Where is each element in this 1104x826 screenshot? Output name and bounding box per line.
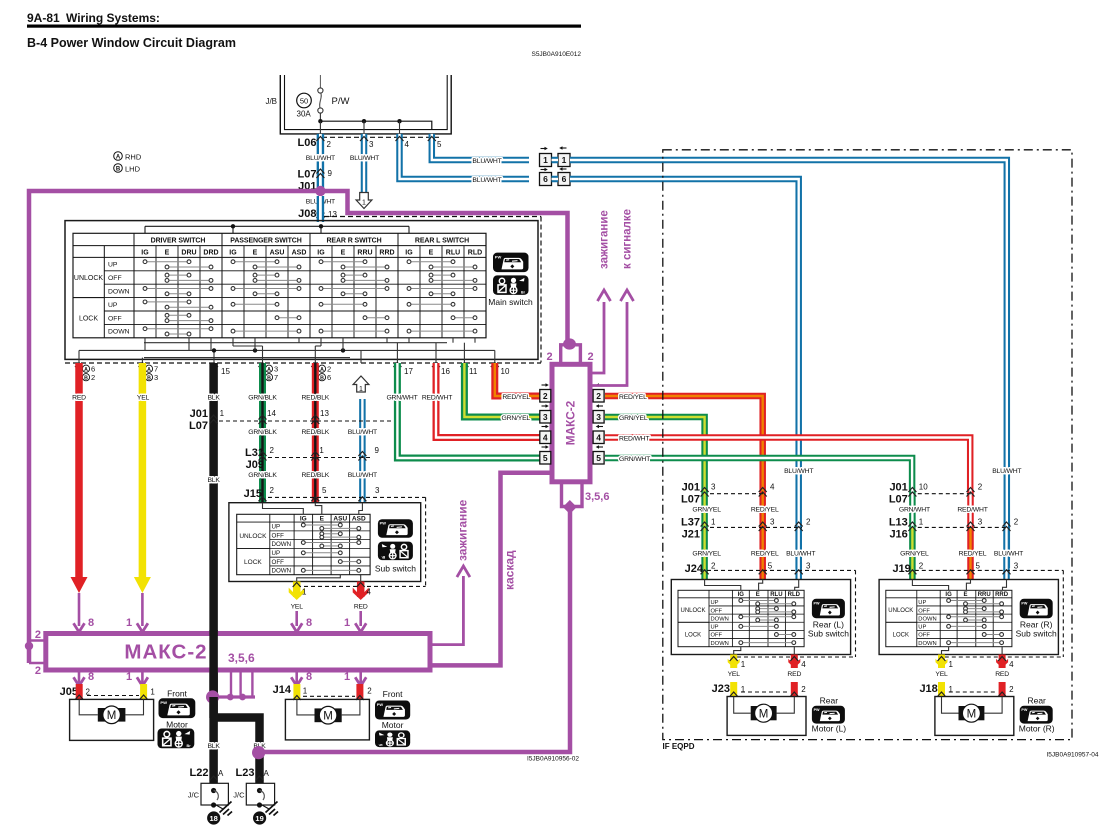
svg-text:M: M [107, 710, 117, 722]
svg-text:1: 1 [359, 386, 363, 393]
svg-text:3: 3 [543, 412, 548, 422]
junction connector J/C box L23 [246, 783, 274, 805]
svg-text:OFF: OFF [918, 608, 930, 614]
svg-text:BLU/WHT: BLU/WHT [786, 551, 815, 558]
main switch outer box [65, 221, 538, 360]
svg-text:PW: PW [377, 702, 384, 707]
svg-text:OFF: OFF [108, 315, 122, 322]
svg-text:BLU/WHT: BLU/WHT [350, 155, 379, 162]
svg-text:Br: Br [187, 744, 192, 748]
rear R sub switch icon [1020, 599, 1053, 618]
svg-text:8: 8 [306, 617, 312, 629]
svg-text:RLU: RLU [770, 592, 782, 598]
rear L sub switch internal routing [705, 580, 741, 591]
svg-text:1: 1 [220, 409, 225, 418]
svg-text:7: 7 [274, 373, 278, 382]
wire purple from J01 junction to MAKC-2 vertical [320, 191, 567, 341]
wire YEL rear R sub to motor [938, 655, 945, 669]
svg-text:5: 5 [543, 453, 548, 463]
svg-text:4: 4 [367, 588, 372, 597]
wire GRN/YEL from right pin3 to rear-left green drop [605, 417, 705, 490]
main switch icon lock/child [493, 275, 529, 295]
svg-text:L37: L37 [681, 517, 700, 529]
svg-text:1: 1 [741, 685, 746, 694]
svg-text:UNLOCK: UNLOCK [680, 608, 705, 614]
svg-text:RED/YEL: RED/YEL [619, 394, 647, 401]
svg-text:RED: RED [72, 395, 86, 402]
svg-text:1: 1 [302, 588, 307, 597]
svg-text:к сигналке: к сигналке [622, 209, 634, 269]
motor symbol M rear L [751, 706, 777, 720]
svg-text:1: 1 [126, 617, 132, 629]
svg-text:4: 4 [801, 660, 806, 669]
svg-text:3: 3 [1014, 561, 1019, 570]
svg-text:1: 1 [126, 671, 132, 683]
svg-text:ASU: ASU [333, 515, 347, 522]
svg-text:RED/YEL: RED/YEL [751, 507, 779, 514]
svg-text:A: A [264, 769, 270, 778]
svg-text:E: E [756, 592, 760, 598]
front sub switch internal routing [263, 503, 304, 515]
connector boxes 1 and 6 top right [541, 148, 545, 150]
svg-text:UP: UP [711, 625, 719, 631]
svg-text:13: 13 [328, 210, 337, 219]
svg-text:L07: L07 [681, 494, 700, 506]
svg-text:RRD: RRD [379, 249, 394, 256]
svg-text:8: 8 [88, 617, 94, 629]
svg-text:2: 2 [806, 518, 811, 527]
svg-text:2: 2 [35, 665, 41, 677]
svg-text:3: 3 [806, 561, 811, 570]
svg-text:2: 2 [543, 391, 548, 401]
dashed boundary around main switch [324, 216, 541, 218]
svg-text:LOCK: LOCK [685, 633, 701, 639]
svg-text:IG: IG [945, 592, 952, 598]
wire BLK over MAKC-2 box [209, 630, 218, 700]
wire GRN/WHT from right pin5 to rear-right green drop [605, 458, 912, 490]
wire RED drop into rear sub switch [967, 490, 974, 527]
svg-text:1: 1 [319, 446, 324, 455]
svg-text:OFF: OFF [108, 275, 122, 282]
svg-text:BLU/WHT: BLU/WHT [348, 472, 377, 479]
main switch internal bottom routing [79, 349, 495, 351]
svg-text:RED/YEL: RED/YEL [959, 551, 987, 558]
wire BLU/WHT drop into rear sub switch [795, 527, 802, 579]
purple link front sub YEL to MAKC-2 [295, 611, 298, 626]
purple outputs below MAKC-2 to J14 [295, 670, 298, 684]
svg-text:B: B [267, 376, 271, 382]
svg-text:J/C: J/C [188, 791, 200, 800]
rear R sub switch dashed box [1062, 570, 1064, 657]
svg-text:каскад: каскад [503, 550, 517, 590]
svg-text:M: M [967, 709, 977, 721]
svg-text:YEL: YEL [137, 395, 150, 402]
svg-text:ASD: ASD [352, 515, 366, 522]
svg-text:A: A [116, 155, 121, 161]
svg-text:3: 3 [369, 140, 374, 149]
svg-text:RED/BLK: RED/BLK [301, 429, 329, 436]
svg-text:J14: J14 [273, 684, 292, 696]
svg-text:3: 3 [154, 373, 158, 382]
svg-text:Motor: Motor [166, 720, 188, 730]
svg-text:LHD: LHD [125, 165, 141, 174]
svg-text:LOCK: LOCK [893, 633, 909, 639]
svg-text:RED/WHT: RED/WHT [422, 395, 452, 402]
svg-text:UNLOCK: UNLOCK [74, 275, 104, 282]
front motor R box [285, 699, 369, 740]
svg-text:2: 2 [546, 351, 552, 363]
wire BLU/WHT J08 into main switch [317, 196, 325, 222]
svg-text:DOWN: DOWN [918, 616, 936, 622]
svg-text:4: 4 [770, 483, 775, 492]
wire BLU/WHT drop into rear sub switch [1003, 527, 1010, 579]
module MAKC-2 (horizontal) [46, 634, 430, 671]
junction purple-black at L23 [252, 746, 265, 759]
svg-text:9: 9 [328, 169, 333, 178]
svg-text:1: 1 [949, 660, 954, 669]
svg-text:E: E [165, 249, 170, 256]
svg-text:B: B [84, 376, 88, 382]
svg-text:BLU/WHT: BLU/WHT [992, 468, 1021, 475]
svg-text:1: 1 [362, 200, 366, 207]
wire GRN/YEL to MAKC-2 pin3 [464, 363, 539, 417]
svg-text:IG: IG [300, 515, 307, 522]
svg-text:3: 3 [711, 483, 716, 492]
svg-text:2: 2 [270, 486, 275, 495]
svg-text:9: 9 [375, 446, 380, 455]
svg-text:3: 3 [596, 412, 601, 422]
svg-text:30A: 30A [297, 110, 312, 119]
svg-text:RED/YEL: RED/YEL [502, 394, 530, 401]
main switch icon power window [493, 253, 529, 273]
svg-text:GRN/BLK: GRN/BLK [248, 395, 277, 402]
svg-text:UP: UP [272, 524, 281, 531]
pin labels under main switch [82, 365, 89, 372]
svg-text:E: E [429, 249, 434, 256]
junction connector J/C box L22 [201, 783, 228, 805]
svg-text:2: 2 [1014, 518, 1019, 527]
svg-text:5: 5 [322, 486, 327, 495]
svg-text:BLU/WHT: BLU/WHT [472, 177, 501, 184]
svg-text:6: 6 [543, 174, 548, 184]
svg-text:1: 1 [303, 687, 308, 696]
front sub switch box [229, 503, 421, 582]
svg-text:RHD: RHD [125, 153, 142, 162]
svg-text:GRN/BLK: GRN/BLK [248, 472, 277, 479]
front sub switch icon lock [378, 542, 413, 561]
svg-text:OFF: OFF [272, 559, 285, 566]
svg-text:J21: J21 [682, 529, 700, 541]
wire purple from J01 junction to left edge and down [29, 191, 320, 663]
svg-text:8: 8 [306, 671, 312, 683]
svg-text:P/W: P/W [332, 96, 350, 107]
svg-text:L13: L13 [889, 517, 908, 529]
svg-text:4: 4 [596, 432, 601, 442]
dash-dot border of rear equipment section [663, 150, 1072, 740]
svg-text:J01: J01 [190, 408, 208, 420]
svg-text:UNLOCK: UNLOCK [888, 608, 913, 614]
wire BLU/WHT to J15 [359, 399, 366, 503]
wire RED drop into rear sub switch [759, 490, 766, 527]
svg-text:зажигание: зажигание [456, 499, 470, 561]
svg-text:GRN/YEL: GRN/YEL [502, 415, 531, 422]
wire BLU/WHT L06-5 to connector 1 [432, 134, 529, 160]
svg-text:Rear: Rear [820, 696, 839, 706]
svg-text:YEL: YEL [728, 671, 741, 678]
wire RED rear L sub to motor [791, 655, 798, 669]
svg-text:YEL: YEL [291, 604, 304, 611]
rear L sub switch dashed box [855, 570, 857, 657]
svg-text:GRN/YEL: GRN/YEL [692, 507, 721, 514]
svg-text:Wiring Systems:: Wiring Systems: [66, 11, 160, 25]
svg-text:4: 4 [543, 432, 548, 442]
svg-text:1: 1 [543, 155, 548, 165]
svg-text:GRN/YEL: GRN/YEL [900, 551, 929, 558]
svg-text:Front: Front [383, 689, 403, 699]
svg-text:Sub switch: Sub switch [375, 564, 416, 574]
svg-text:J16: J16 [889, 529, 907, 541]
svg-text:PW: PW [1021, 601, 1027, 605]
continuation arrow 1 (up) above BLU/WHT [353, 376, 369, 392]
wire BLU/WHT L06-3 vertical [361, 134, 368, 193]
purple wire from MAKC-2 right to ignition arrow (зажигание) [430, 576, 463, 645]
svg-text:BLU/WHT: BLU/WHT [348, 429, 377, 436]
svg-text:5: 5 [596, 453, 601, 463]
wire BLU/WHT L06-2 vertical [317, 134, 325, 191]
svg-text:DOWN: DOWN [711, 641, 729, 647]
svg-text:E: E [341, 249, 346, 256]
svg-text:UP: UP [272, 550, 281, 557]
fuse output bus [319, 113, 321, 122]
svg-text:3: 3 [978, 518, 983, 527]
left pin 2 stubs of MAKC-2 horizontal [29, 639, 46, 641]
svg-text:DRU: DRU [181, 249, 196, 256]
main switch IG supply bus [144, 226, 146, 233]
svg-text:1: 1 [562, 155, 567, 165]
purple wire cascade from MAKC-2 right [430, 473, 552, 666]
svg-text:B: B [147, 376, 151, 382]
fuse 50 30A P/W [319, 75, 321, 89]
svg-text:DOWN: DOWN [272, 568, 292, 575]
svg-text:L23: L23 [236, 767, 255, 779]
svg-text:RED: RED [354, 604, 368, 611]
svg-text:16: 16 [441, 367, 450, 376]
rear motor R box [935, 697, 1014, 736]
svg-text:J08: J08 [298, 208, 316, 220]
svg-text:J19: J19 [892, 563, 910, 575]
svg-text:BLU/WHT: BLU/WHT [472, 158, 501, 165]
svg-text:1: 1 [711, 518, 716, 527]
svg-text:Sub switch: Sub switch [1016, 628, 1057, 638]
svg-text:RLU: RLU [446, 249, 460, 256]
wire RED rear R sub to motor [999, 655, 1006, 669]
svg-text:YEL: YEL [935, 671, 948, 678]
ground symbol 18 [216, 805, 223, 809]
svg-text:GRN/BLK: GRN/BLK [248, 429, 277, 436]
svg-text:2: 2 [919, 561, 924, 570]
arrow to ignition (зажигание) near MAKC-2 [590, 302, 604, 373]
motor symbol M front L [98, 708, 126, 722]
junction block J/B box [280, 75, 451, 134]
rear L sub switch contacts [743, 600, 775, 602]
svg-text:8: 8 [88, 671, 94, 683]
svg-text:15: 15 [221, 367, 230, 376]
svg-text:6: 6 [562, 174, 567, 184]
wire GRN drop into rear sub switch [701, 490, 708, 527]
svg-text:UP: UP [108, 262, 118, 269]
svg-text:GRN/WHT: GRN/WHT [899, 507, 930, 514]
wire YEL out of front sub switch [293, 582, 301, 598]
svg-text:REAR R SWITCH: REAR R SWITCH [326, 237, 381, 244]
svg-text:ASU: ASU [270, 249, 285, 256]
wire BLU/WHT between 6-6 boxes and into right section [552, 176, 559, 183]
continuation arrow 1 (down) from L06-3 [356, 193, 372, 209]
MAKC-2 left pin boxes 2 3 4 5 [542, 384, 546, 386]
svg-text:GRN/WHT: GRN/WHT [619, 456, 650, 463]
svg-text:2: 2 [1009, 685, 1014, 694]
svg-text:B-4 Power Window Circuit Diagr: B-4 Power Window Circuit Diagram [27, 36, 236, 50]
svg-text:10: 10 [501, 367, 510, 376]
svg-text:RED/BLK: RED/BLK [301, 472, 329, 479]
svg-text:RLD: RLD [788, 592, 801, 598]
svg-text:RLD: RLD [468, 249, 482, 256]
svg-text:UP: UP [711, 600, 719, 606]
wire GRN/WHT to MAKC-2 pin5 [397, 363, 539, 458]
svg-text:M: M [759, 709, 769, 721]
svg-text:RRD: RRD [995, 592, 1009, 598]
svg-text:Sub switch: Sub switch [808, 628, 849, 638]
svg-text:RRU: RRU [978, 592, 991, 598]
wire GRN drop into rear sub switch [909, 490, 916, 527]
svg-text:3,5,6: 3,5,6 [585, 491, 609, 503]
svg-text:E: E [963, 592, 967, 598]
svg-text:J/C: J/C [233, 791, 245, 800]
main switch contacts [147, 261, 187, 263]
svg-text:2: 2 [35, 629, 41, 641]
svg-text:L06: L06 [298, 137, 317, 149]
svg-text:IF EQPD: IF EQPD [663, 742, 695, 751]
wire purple cascade from MAKC-2 bottom to rear junction [259, 507, 570, 752]
svg-text:2: 2 [587, 351, 593, 363]
svg-text:3,5,6: 3,5,6 [228, 651, 255, 665]
svg-text:2: 2 [91, 373, 95, 382]
svg-text:19: 19 [255, 814, 263, 823]
svg-text:1: 1 [344, 671, 350, 683]
svg-text:OFF: OFF [272, 532, 285, 539]
svg-text:1: 1 [150, 688, 155, 697]
svg-text:3: 3 [770, 518, 775, 527]
svg-text:50: 50 [300, 96, 308, 105]
arrow to alarm (к сигналке) [590, 302, 627, 386]
svg-text:IG: IG [141, 249, 149, 256]
motor symbol M front R [315, 708, 342, 722]
ground symbol 19 [262, 805, 269, 809]
svg-text:B: B [116, 167, 121, 173]
svg-text:DRD: DRD [203, 249, 218, 256]
svg-text:2: 2 [596, 391, 601, 401]
svg-text:E: E [253, 249, 258, 256]
wire GRN/BLK from main switch to J15 [259, 363, 266, 503]
legend RHD/LHD [114, 152, 123, 161]
svg-text:PASSENGER SWITCH: PASSENGER SWITCH [230, 237, 301, 244]
svg-text:S5JB0A910E012: S5JB0A910E012 [531, 51, 581, 58]
svg-text:5: 5 [768, 561, 773, 570]
purple outputs below MAKC-2 to J05 [78, 670, 81, 684]
svg-text:IG: IG [229, 249, 237, 256]
motor symbol M rear R [959, 706, 985, 720]
svg-text:BLK: BLK [207, 477, 220, 484]
svg-text:J/B: J/B [265, 97, 277, 106]
svg-text:LOCK: LOCK [79, 315, 98, 322]
purple feed U into MAKC-2 top [561, 345, 581, 365]
svg-text:DOWN: DOWN [918, 641, 936, 647]
svg-text:J15: J15 [244, 488, 262, 500]
svg-text:DOWN: DOWN [108, 289, 130, 296]
svg-text:RED/YEL: RED/YEL [751, 551, 779, 558]
svg-text:Main switch: Main switch [488, 297, 533, 307]
svg-text:UP: UP [918, 600, 926, 606]
svg-text:DOWN: DOWN [108, 329, 130, 336]
wire RED from main switch down to arrow [75, 363, 83, 578]
svg-text:Motor: Motor [382, 720, 404, 730]
svg-text:PW: PW [814, 708, 821, 712]
svg-text:3: 3 [375, 486, 380, 495]
svg-text:J01: J01 [889, 482, 907, 494]
svg-text:OFF: OFF [711, 633, 723, 639]
svg-text:5: 5 [976, 561, 981, 570]
svg-text:J18: J18 [919, 683, 937, 695]
svg-text:Rear: Rear [1027, 696, 1046, 706]
svg-text:BLU/WHT: BLU/WHT [306, 155, 335, 162]
svg-text:18: 18 [210, 814, 218, 823]
rear motor L box [727, 697, 806, 736]
purple bundle 3,5,6 below MAKC-2 [230, 670, 232, 697]
svg-text:14: 14 [267, 409, 276, 418]
svg-text:OFF: OFF [711, 608, 723, 614]
svg-text:5: 5 [437, 140, 442, 149]
svg-text:L07: L07 [889, 494, 908, 506]
svg-text:BLU/WHT: BLU/WHT [784, 468, 813, 475]
svg-text:9A-81: 9A-81 [27, 11, 60, 25]
svg-text:UP: UP [918, 625, 926, 631]
svg-text:RRU: RRU [357, 249, 372, 256]
svg-text:A: A [218, 769, 224, 778]
svg-text:2: 2 [86, 688, 91, 697]
connector L06 dashed line [322, 136, 440, 138]
svg-text:зажигание: зажигание [599, 210, 611, 269]
MAKC-2 right pin boxes 2 3 4 5 [599, 384, 603, 386]
svg-text:BLK: BLK [207, 395, 220, 402]
svg-text:REAR L SWITCH: REAR L SWITCH [415, 237, 469, 244]
svg-text:PW: PW [160, 700, 167, 705]
svg-text:PW: PW [1021, 708, 1028, 712]
svg-text:GRN/YEL: GRN/YEL [619, 415, 648, 422]
svg-text:1: 1 [344, 617, 350, 629]
svg-text:МАКС-2: МАКС-2 [564, 400, 578, 445]
svg-text:IG: IG [317, 249, 325, 256]
chevrons at main switch connector [75, 363, 83, 368]
svg-text:2: 2 [367, 687, 372, 696]
svg-text:13: 13 [320, 409, 329, 418]
svg-text:PW: PW [380, 522, 387, 526]
svg-text:B: B [320, 376, 324, 382]
svg-text:GRN/YEL: GRN/YEL [692, 551, 721, 558]
svg-text:Motor (R): Motor (R) [1019, 724, 1055, 734]
svg-text:4: 4 [405, 140, 410, 149]
svg-text:BLK: BLK [207, 743, 220, 750]
svg-text:PW: PW [814, 601, 820, 605]
svg-text:RED/WHT: RED/WHT [619, 436, 649, 443]
